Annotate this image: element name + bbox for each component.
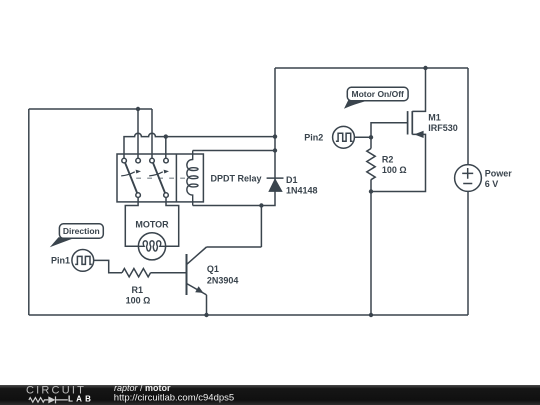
M1 source arrow: [414, 131, 423, 138]
svg-text:R2: R2: [382, 155, 394, 165]
annotation callout: Direction: [50, 224, 104, 247]
M1 channel bar: [411, 111, 413, 134]
svg-text:100 Ω: 100 Ω: [382, 165, 407, 175]
wire: bottom rail: [29, 314, 468, 316]
svg-text:Pin2: Pin2: [304, 132, 323, 142]
wire: R1 to Q1 base: [151, 272, 186, 274]
node: junction pin2/gate/R2: [369, 135, 373, 139]
wire: motor right loop from relay pole 2: [166, 197, 179, 246]
svg-text:1N4148: 1N4148: [286, 185, 318, 195]
svg-text:M1: M1: [428, 112, 441, 122]
svg-text:DPDT Relay: DPDT Relay: [211, 173, 262, 183]
wire: left vertical of outer loop: [28, 109, 30, 315]
wire: Q1 collector run: [207, 206, 262, 248]
svg-text:6 V: 6 V: [485, 179, 499, 189]
pin port Pin2: [333, 126, 355, 148]
node: junction diode rail top: [273, 134, 277, 138]
resistor R2: [367, 137, 375, 191]
wire: relay coil top terminal to diode line: [193, 150, 275, 152]
relay divider: [175, 154, 177, 202]
footer bar: [0, 385, 540, 405]
Q1 base bar: [186, 254, 188, 295]
relay body box: [117, 154, 203, 202]
wire: top rail to power: [275, 67, 468, 69]
wire: top-left rail to relay contacts: [29, 108, 152, 110]
diode D1 1N4148: [267, 178, 284, 192]
svg-text:D1: D1: [286, 175, 298, 185]
mosfet M1 IRF530: [408, 111, 424, 138]
node: junction R2 bottom / source: [369, 189, 373, 193]
svg-text:Q1: Q1: [207, 264, 219, 274]
node: junction collector tap: [259, 203, 263, 207]
node: junction drain tap: [423, 66, 427, 70]
node: junction bottom rail R2: [369, 313, 373, 317]
relay arrow 1: [121, 172, 135, 176]
svg-text:http://circuitlab.com/c94dps5: http://circuitlab.com/c94dps5: [114, 392, 234, 403]
relay arrow 2: [149, 172, 163, 176]
wire: diode branch vertical: [193, 68, 275, 206]
wire: pin1 to R1: [94, 260, 122, 272]
annotation callout: Motor On/Off: [344, 87, 408, 109]
wire: source lead down to R2 bottom: [371, 134, 426, 191]
transistor Q1 2N3904: [187, 247, 207, 295]
svg-text:MOTOR: MOTOR: [135, 219, 169, 229]
wire: down to relay contact 3: [151, 109, 153, 158]
node: junction emitter on bottom rail: [204, 313, 208, 317]
wire: relay contacts 1 and 4 to diode rail, with hops: [124, 133, 275, 158]
relay switch arm 2: [153, 163, 165, 193]
svg-text:R1: R1: [132, 285, 144, 295]
svg-text:Pin1: Pin1: [51, 256, 70, 266]
pin port Pin1: [72, 250, 94, 272]
wire: drain lead: [412, 68, 425, 111]
svg-text:2N3904: 2N3904: [207, 275, 239, 285]
svg-text:IRF530: IRF530: [428, 123, 458, 133]
wire: power top lead: [467, 68, 469, 165]
resistor R1: [122, 269, 151, 277]
relay terminal circles: [122, 158, 127, 163]
relay coil: [187, 151, 198, 206]
wire: stub to relay contact 4: [165, 137, 167, 159]
svg-text:Motor On/Off: Motor On/Off: [351, 89, 404, 99]
relay K1 DPDT: [117, 151, 203, 206]
wire: down to relay contact 2: [137, 109, 139, 158]
svg-text:LAB: LAB: [68, 394, 94, 403]
wire: gate lead: [371, 123, 408, 138]
Q1 emitter diagonal: [187, 284, 207, 295]
node: junction contact4 stub: [164, 134, 168, 138]
svg-text:100 Ω: 100 Ω: [126, 296, 151, 306]
wire: Q1 emitter to bottom rail: [206, 295, 208, 315]
wire: R2 bottom to bottom rail: [370, 192, 372, 316]
wire: Pin2 to junction: [354, 136, 371, 138]
motor winding glyph: [138, 241, 165, 251]
relay mechanical link (dashed): [136, 177, 188, 179]
node: junction on top-left rail: [136, 107, 140, 111]
Q1 collector diagonal: [187, 247, 207, 264]
motor MOTOR: [138, 233, 165, 260]
wire: power bottom lead: [467, 191, 469, 315]
Q1 emitter arrow: [195, 286, 203, 293]
svg-text:raptor / motor: raptor / motor: [114, 383, 171, 393]
voltage source Power 6V: [455, 165, 482, 192]
node: junction coil top: [273, 148, 277, 152]
svg-text:Direction: Direction: [63, 226, 100, 236]
footer logo resistor+diode glyph: [29, 396, 68, 403]
relay switch arm 1: [125, 163, 137, 193]
M1 gate bar: [407, 111, 409, 134]
svg-text:Power: Power: [485, 169, 513, 179]
wire: motor left loop from relay pole 1: [125, 197, 138, 246]
